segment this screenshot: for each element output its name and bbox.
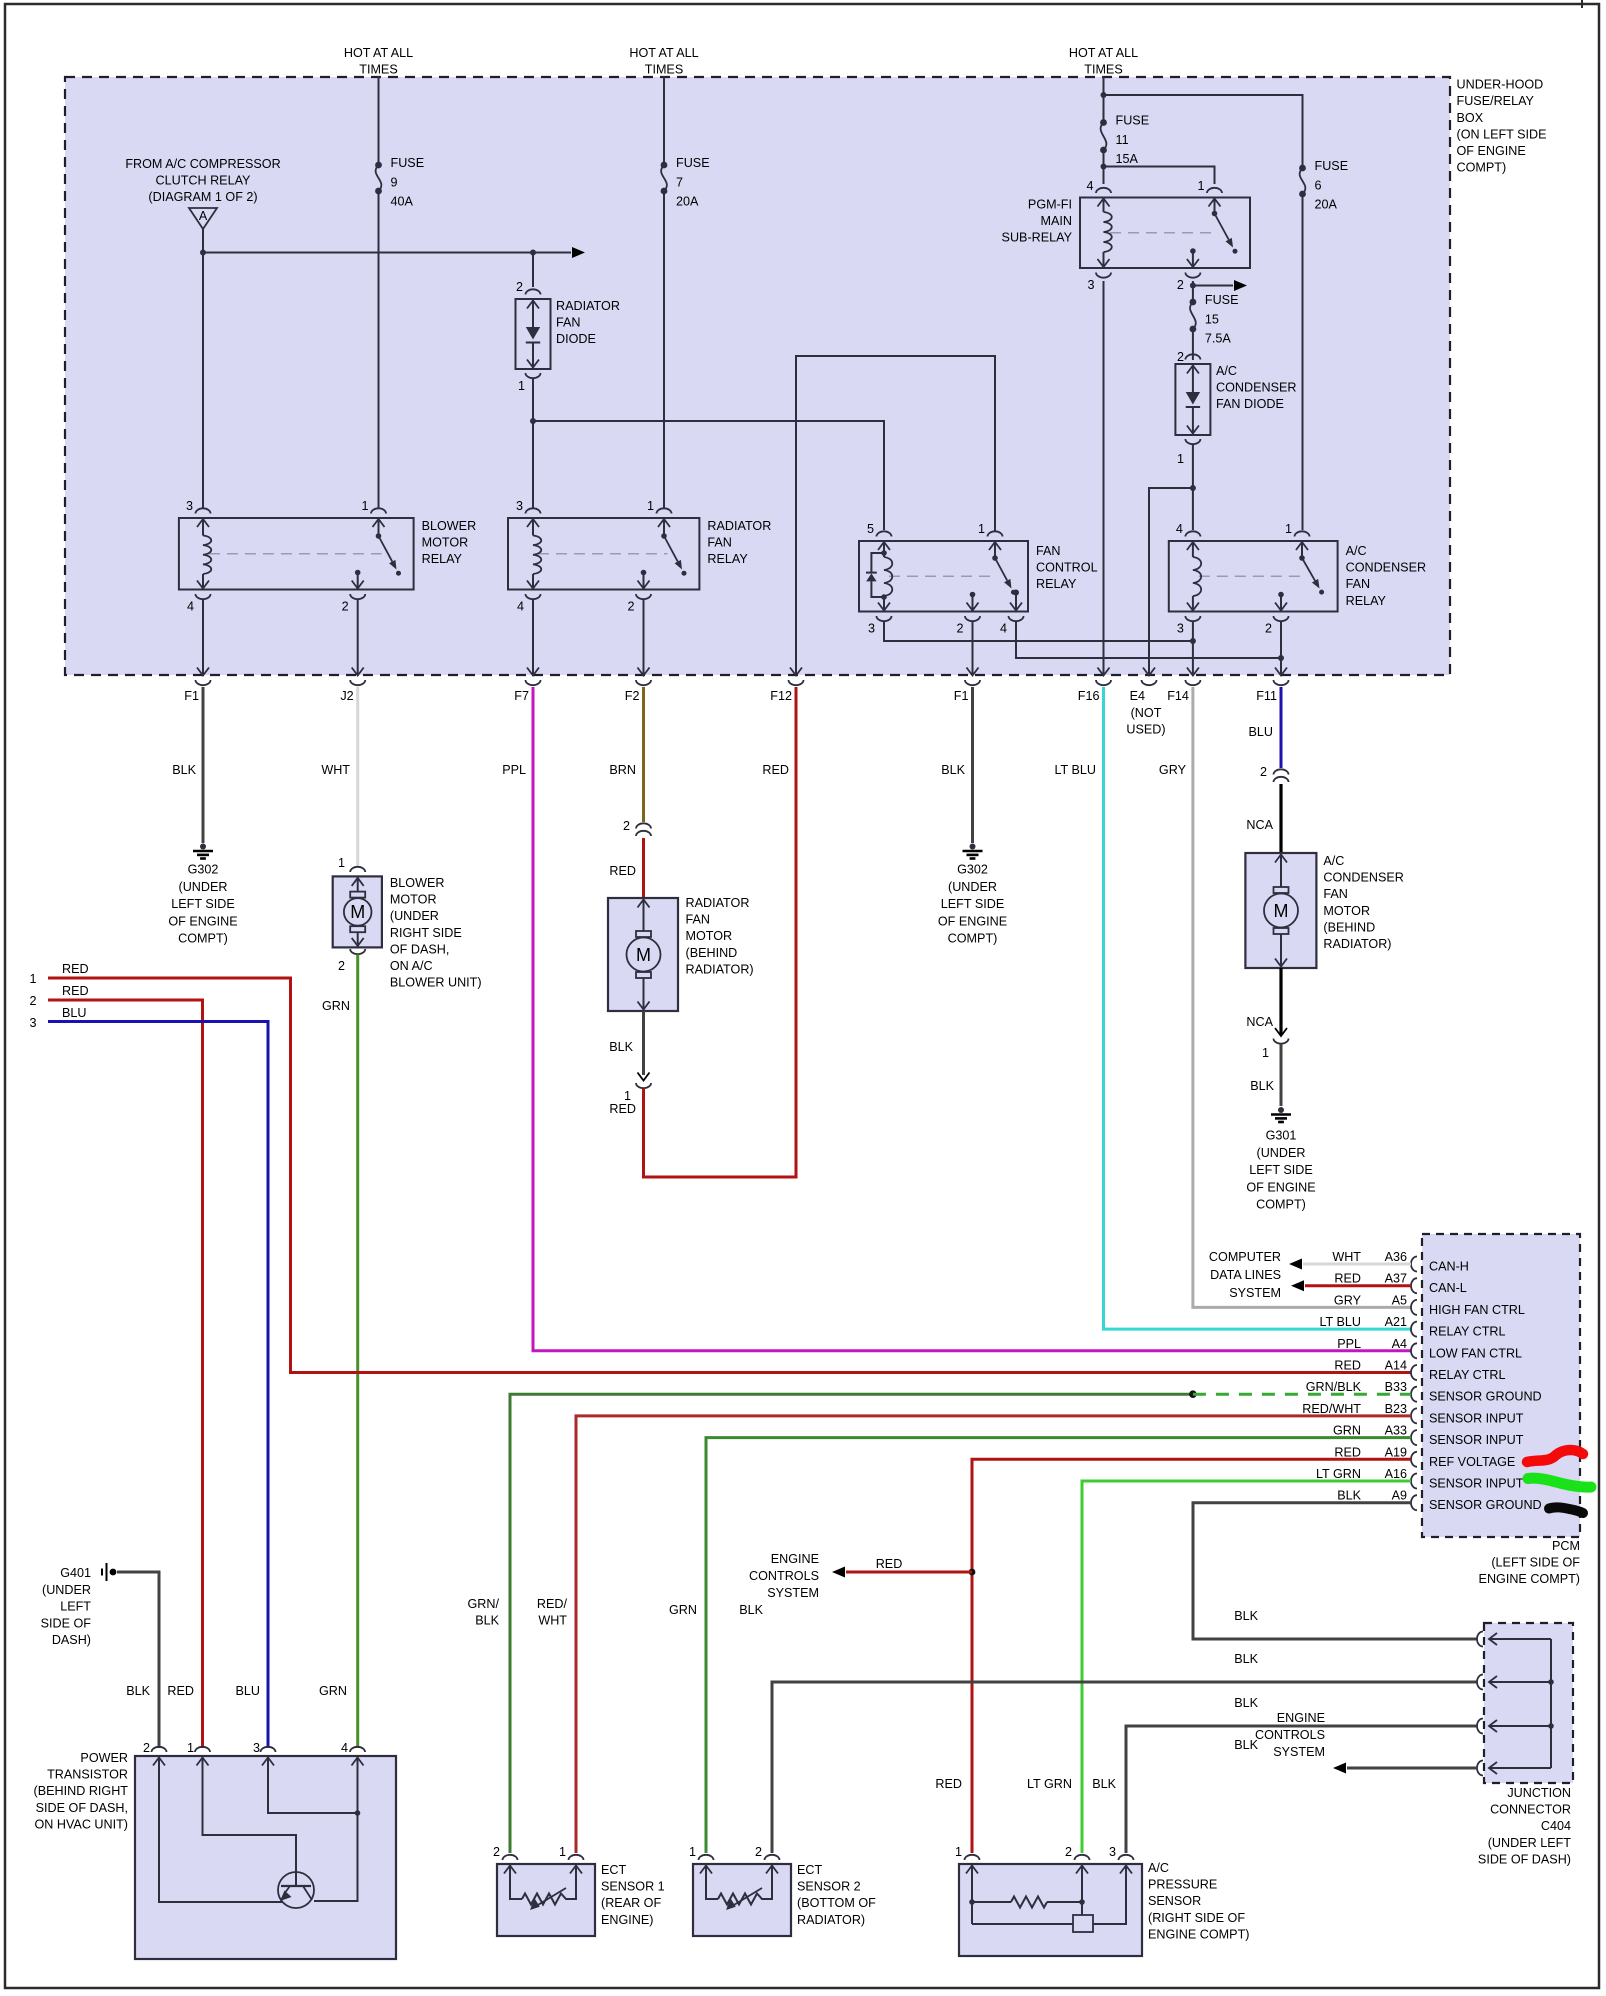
wire GRN sensor input A33 bbox=[706, 1438, 1411, 1853]
inline connector radiator fan motor pin 1 bbox=[638, 1073, 650, 1081]
wire F16 LT BLU to PCM A21 bbox=[1104, 687, 1412, 1329]
relay BLOWER MOTOR RELAY bbox=[179, 518, 414, 590]
svg-text:SYSTEM: SYSTEM bbox=[767, 1586, 819, 1600]
svg-text:RADIATOR): RADIATOR) bbox=[797, 1913, 865, 1927]
svg-text:F7: F7 bbox=[514, 689, 529, 703]
svg-text:1: 1 bbox=[361, 499, 368, 513]
power transistor pin 4 connector bbox=[350, 1747, 365, 1752]
wire G401 BLK to power transistor pin 2 bbox=[117, 1572, 159, 1748]
sub-relay coil pins 4-3 bbox=[1098, 199, 1110, 207]
wire NCA to A/C condenser fan motor bbox=[1279, 784, 1282, 853]
relay RADIATOR FAN RELAY bbox=[508, 518, 699, 590]
svg-text:FUSE: FUSE bbox=[391, 156, 425, 170]
svg-text:A4: A4 bbox=[1392, 1337, 1407, 1351]
svg-text:OF ENGINE: OF ENGINE bbox=[1246, 1180, 1315, 1194]
svg-text:PGM-FI: PGM-FI bbox=[1028, 198, 1072, 212]
fuse 9 40A bbox=[375, 162, 382, 169]
svg-text:A/C: A/C bbox=[1323, 854, 1344, 868]
svg-text:CONTROL: CONTROL bbox=[1036, 561, 1098, 575]
fan control relay coil pins 5-3 bbox=[878, 542, 890, 550]
wire fuse 6 to A/C condenser fan relay pin 1 bbox=[1302, 194, 1304, 530]
blower motor pin 2 connector bbox=[350, 949, 365, 954]
svg-text:LT GRN: LT GRN bbox=[1027, 1777, 1072, 1791]
wire fan control relay pin 2 to F1 bbox=[972, 622, 974, 675]
svg-text:OF DASH,: OF DASH, bbox=[390, 942, 449, 956]
wire fuse 11 to sub-relay pin 4 bbox=[1103, 150, 1105, 184]
inline connector A/C condenser fan motor pin 1 bbox=[1275, 1028, 1287, 1036]
svg-text:2: 2 bbox=[623, 819, 630, 833]
sub-relay pin 4 connector bbox=[1096, 188, 1111, 193]
wire BLK to ground G301 bbox=[1280, 1044, 1283, 1106]
svg-text:LEFT: LEFT bbox=[60, 1600, 91, 1614]
blower relay switch pins 1-2 bbox=[378, 518, 380, 536]
wire radiator fan motor BLK down bbox=[642, 1011, 645, 1075]
svg-text:40A: 40A bbox=[391, 195, 414, 209]
svg-text:4: 4 bbox=[517, 600, 524, 614]
wire A/C relay pin 3 to F14 bbox=[1192, 622, 1194, 675]
svg-text:MOTOR: MOTOR bbox=[1323, 904, 1370, 918]
svg-text:SYSTEM: SYSTEM bbox=[1229, 1286, 1281, 1300]
svg-text:3: 3 bbox=[1087, 278, 1094, 292]
svg-text:1: 1 bbox=[187, 1741, 194, 1755]
svg-text:FAN: FAN bbox=[1036, 544, 1061, 558]
svg-text:RED: RED bbox=[1334, 1359, 1361, 1373]
transistor POWER TRANSISTOR box bbox=[135, 1756, 396, 1959]
power transistor pin 1 connector bbox=[195, 1747, 210, 1752]
svg-text:A36: A36 bbox=[1385, 1250, 1407, 1264]
relay A/C CONDENSER FAN RELAY bbox=[1169, 541, 1338, 612]
svg-text:(UNDER: (UNDER bbox=[390, 909, 439, 923]
svg-text:RED/WHT: RED/WHT bbox=[1302, 1402, 1361, 1416]
svg-text:1: 1 bbox=[1262, 1046, 1269, 1060]
power transistor internal pin 4 lead bbox=[352, 1758, 364, 1766]
A/C pressure sensor pin 1 connector bbox=[965, 1855, 980, 1860]
PCM pin A16 SENSOR INPUT bbox=[1411, 1474, 1417, 1489]
svg-text:F2: F2 bbox=[625, 689, 640, 703]
svg-text:LOW FAN CTRL: LOW FAN CTRL bbox=[1429, 1346, 1522, 1360]
wire F2 BRN to inline connector bbox=[642, 687, 645, 822]
junction connector row 2 bbox=[1477, 1675, 1483, 1690]
svg-text:BLK: BLK bbox=[1234, 1609, 1258, 1623]
sub-relay switch pins 1-2 bbox=[1214, 198, 1216, 214]
svg-text:A/C: A/C bbox=[1346, 544, 1367, 558]
svg-text:BLOWER: BLOWER bbox=[390, 876, 445, 890]
wire blower relay pin 2 to J2 bbox=[357, 600, 359, 675]
wire RED CAN-L with arrow bbox=[1291, 1280, 1304, 1291]
A/C condenser fan relay coil pins 4-3 bbox=[1187, 542, 1199, 550]
svg-text:BLK: BLK bbox=[475, 1614, 499, 1628]
svg-text:4: 4 bbox=[341, 1741, 348, 1755]
svg-text:BLK: BLK bbox=[126, 1684, 150, 1698]
svg-text:CONTROLS: CONTROLS bbox=[1255, 1728, 1325, 1742]
svg-text:RELAY: RELAY bbox=[707, 552, 748, 566]
svg-text:RELAY: RELAY bbox=[422, 552, 463, 566]
ECT sensor 2 pin 1 connector bbox=[699, 1855, 714, 1860]
svg-text:(LEFT SIDE OF: (LEFT SIDE OF bbox=[1491, 1556, 1580, 1570]
PCM pin A37 CAN-L bbox=[1411, 1278, 1417, 1293]
ECT sensor 2 pin 2 connector bbox=[765, 1855, 780, 1860]
svg-text:(UNDER: (UNDER bbox=[42, 1583, 91, 1597]
svg-text:4: 4 bbox=[187, 600, 194, 614]
blower motor pin 1 connector bbox=[350, 867, 365, 872]
blower relay pin 2 connector bbox=[350, 594, 365, 599]
svg-text:FAN: FAN bbox=[686, 913, 711, 927]
svg-text:A/C: A/C bbox=[1216, 364, 1237, 378]
svg-text:A5: A5 bbox=[1392, 1293, 1407, 1307]
inline connector A/C condenser fan motor pin 2 bbox=[1274, 769, 1289, 774]
svg-text:1: 1 bbox=[689, 1845, 696, 1859]
svg-text:2: 2 bbox=[493, 1845, 500, 1859]
svg-text:(RIGHT SIDE OF: (RIGHT SIDE OF bbox=[1148, 1911, 1245, 1925]
wire A/C pressure pin 3 BLK to junction connector bbox=[1126, 1726, 1477, 1853]
wire RED/WHT sensor input B23 bbox=[576, 1416, 1411, 1853]
svg-text:GRN/BLK: GRN/BLK bbox=[1306, 1380, 1362, 1394]
svg-text:RED: RED bbox=[167, 1684, 194, 1698]
svg-text:FAN: FAN bbox=[1323, 887, 1348, 901]
svg-text:COMPT): COMPT) bbox=[1457, 161, 1507, 175]
svg-text:FUSE: FUSE bbox=[1116, 114, 1150, 128]
svg-text:1: 1 bbox=[978, 522, 985, 536]
svg-text:A37: A37 bbox=[1385, 1272, 1407, 1286]
page corner tick bbox=[1581, 0, 1583, 8]
svg-text:1: 1 bbox=[1285, 522, 1292, 536]
svg-text:FUSE: FUSE bbox=[676, 156, 710, 170]
svg-text:USED): USED) bbox=[1126, 723, 1165, 737]
connector F1 (blower relay) bbox=[197, 668, 209, 676]
svg-text:NCA: NCA bbox=[1246, 818, 1273, 832]
svg-text:BLK: BLK bbox=[609, 1040, 633, 1054]
svg-text:5: 5 bbox=[867, 522, 874, 536]
svg-text:BLK: BLK bbox=[1234, 1696, 1258, 1710]
svg-text:TIMES: TIMES bbox=[645, 63, 683, 77]
PCM pin A36 CAN-H bbox=[1411, 1257, 1417, 1272]
svg-text:ENGINE: ENGINE bbox=[771, 1552, 819, 1566]
svg-text:9: 9 bbox=[391, 175, 398, 189]
svg-text:TRANSISTOR: TRANSISTOR bbox=[47, 1768, 128, 1782]
fan control relay switch pins 1-4 bbox=[994, 541, 996, 558]
wire branch to E4 bbox=[1149, 488, 1193, 674]
svg-text:(BEHIND: (BEHIND bbox=[1323, 920, 1375, 934]
junction node A horizontal branch bbox=[200, 250, 206, 256]
wire fuse 9 to blower relay pin 1 bbox=[378, 191, 380, 508]
wire fan control relay pin 1 feed from F12 column bbox=[796, 356, 995, 675]
ECT sensor 1 pin 1 connector bbox=[569, 1855, 584, 1860]
svg-text:ENGINE COMPT): ENGINE COMPT) bbox=[1479, 1572, 1580, 1586]
svg-text:NCA: NCA bbox=[1246, 1015, 1273, 1029]
wire RED arrow to engine controls system bbox=[846, 1571, 972, 1574]
svg-text:GRY: GRY bbox=[1159, 763, 1187, 777]
svg-text:BLU: BLU bbox=[1249, 725, 1274, 739]
svg-text:BLK: BLK bbox=[1234, 1652, 1258, 1666]
svg-text:F11: F11 bbox=[1256, 689, 1277, 703]
fuse 6 20A bbox=[1299, 165, 1306, 172]
wire F11 BLU down bbox=[1280, 687, 1283, 768]
svg-text:MOTOR: MOTOR bbox=[390, 893, 437, 907]
svg-text:BLU: BLU bbox=[236, 1684, 261, 1698]
svg-text:1: 1 bbox=[624, 1089, 631, 1103]
fan control relay pin 4 connector bbox=[1009, 616, 1024, 621]
svg-text:RELAY CTRL: RELAY CTRL bbox=[1429, 1325, 1506, 1339]
connector F2 bbox=[638, 668, 650, 676]
svg-text:ENGINE: ENGINE bbox=[1277, 1711, 1325, 1725]
connector J2 bbox=[352, 668, 364, 676]
fan control relay pin 5 connector bbox=[877, 531, 892, 536]
svg-text:FAN DIODE: FAN DIODE bbox=[1216, 397, 1284, 411]
wire branch to sub-relay pin 1 bbox=[1104, 167, 1215, 185]
junction branch to radiator fan diode bbox=[530, 250, 536, 256]
svg-text:BLK: BLK bbox=[1337, 1489, 1361, 1503]
svg-text:RED: RED bbox=[1334, 1445, 1361, 1459]
svg-text:POWER: POWER bbox=[80, 1751, 128, 1765]
wire row 3 BLU to power transistor pin 3 bbox=[48, 1022, 268, 1749]
radiator fan relay pin 4 connector bbox=[526, 594, 541, 599]
svg-text:MOTOR: MOTOR bbox=[422, 536, 469, 550]
svg-text:BLK: BLK bbox=[1250, 1079, 1274, 1093]
wire row 1 RED to PCM A14 bbox=[48, 978, 1411, 1373]
wire blower motor pin 2 GRN to power transistor pin 4 bbox=[356, 955, 359, 1749]
connector F16 bbox=[1098, 668, 1110, 676]
wire F7 PPL to PCM A4 bbox=[533, 687, 1411, 1351]
A/C condenser fan diode pin 2 connector bbox=[1185, 354, 1200, 359]
svg-text:7: 7 bbox=[676, 175, 683, 189]
svg-text:SENSOR 1: SENSOR 1 bbox=[601, 1880, 665, 1894]
svg-text:ON A/C: ON A/C bbox=[390, 959, 433, 973]
A/C pressure sensor pin 2 connector bbox=[1075, 1855, 1090, 1860]
svg-text:G301: G301 bbox=[1266, 1129, 1297, 1143]
svg-text:RELAY: RELAY bbox=[1036, 577, 1077, 591]
power transistor internal pin 3 lead bbox=[262, 1758, 274, 1766]
wire fan control relay pin 4 to A/C relay pin 2 column bbox=[1016, 622, 1281, 659]
svg-text:WHT: WHT bbox=[321, 763, 350, 777]
scribble black marker bbox=[1549, 1507, 1583, 1513]
wire fan control relay pin 3 to F14 column bbox=[884, 622, 1193, 642]
svg-text:A21: A21 bbox=[1385, 1315, 1407, 1329]
wire hot feed to fuse 7 bbox=[663, 76, 665, 165]
inline connector radiator fan motor pin 2 bbox=[636, 823, 651, 828]
svg-text:CONDENSER: CONDENSER bbox=[1323, 871, 1403, 885]
svg-text:F1: F1 bbox=[184, 689, 199, 703]
A/C pressure sensor pin 3 connector bbox=[1119, 1855, 1134, 1860]
radiator fan relay coil pins 3-4 bbox=[527, 519, 539, 527]
svg-text:1: 1 bbox=[559, 1845, 566, 1859]
svg-text:RED: RED bbox=[1334, 1272, 1361, 1286]
svg-text:3: 3 bbox=[868, 622, 875, 636]
PCM pin A5 HIGH FAN CTRL bbox=[1411, 1300, 1417, 1315]
wire hot feed to fuse 9 bbox=[378, 76, 380, 165]
ground G302 bbox=[200, 844, 206, 850]
svg-text:RED/: RED/ bbox=[537, 1597, 568, 1611]
svg-text:SENSOR INPUT: SENSOR INPUT bbox=[1429, 1411, 1524, 1425]
wire F1 BLK to ground G302 (fan control) bbox=[971, 687, 974, 843]
fuse 7 20A bbox=[661, 162, 668, 169]
svg-text:ECT: ECT bbox=[601, 1863, 626, 1877]
wire node A branch with arrow bbox=[203, 252, 571, 254]
svg-text:A33: A33 bbox=[1385, 1424, 1407, 1438]
svg-text:(NOT: (NOT bbox=[1131, 706, 1162, 720]
svg-text:TIMES: TIMES bbox=[359, 63, 397, 77]
junction fan control pin 3 / A/C relay pin 3 bbox=[1190, 638, 1196, 644]
svg-text:A9: A9 bbox=[1392, 1489, 1407, 1503]
svg-text:F14: F14 bbox=[1167, 689, 1189, 703]
connector F12 bbox=[790, 668, 802, 676]
svg-text:GRN: GRN bbox=[1333, 1424, 1361, 1438]
connector F14 bbox=[1187, 668, 1199, 676]
svg-text:7.5A: 7.5A bbox=[1205, 332, 1232, 346]
svg-text:BLK: BLK bbox=[172, 763, 196, 777]
svg-text:RADIATOR): RADIATOR) bbox=[1323, 937, 1391, 951]
svg-text:11: 11 bbox=[1116, 133, 1129, 147]
svg-text:GRN: GRN bbox=[322, 999, 350, 1013]
svg-text:2: 2 bbox=[1065, 1845, 1072, 1859]
power transistor internal pin 1 lead bbox=[197, 1758, 209, 1766]
svg-text:RED: RED bbox=[762, 763, 789, 777]
svg-text:GRN/: GRN/ bbox=[468, 1597, 500, 1611]
svg-text:RED: RED bbox=[62, 962, 89, 976]
svg-text:BLK: BLK bbox=[739, 1603, 763, 1617]
A/C condenser fan relay switch pins 1-2 bbox=[1301, 541, 1303, 558]
svg-text:BOX: BOX bbox=[1457, 111, 1484, 125]
svg-text:3: 3 bbox=[253, 1741, 260, 1755]
wire F1 BLK to ground G302 bbox=[202, 687, 205, 843]
svg-text:2: 2 bbox=[29, 994, 36, 1008]
svg-text:HOT AT ALL: HOT AT ALL bbox=[344, 46, 413, 60]
svg-text:(BEHIND: (BEHIND bbox=[686, 946, 738, 960]
blower relay pin 3 connector bbox=[196, 508, 211, 513]
svg-text:3: 3 bbox=[1109, 1845, 1116, 1859]
svg-text:2: 2 bbox=[956, 622, 963, 636]
svg-text:4: 4 bbox=[1000, 622, 1007, 636]
svg-text:LEFT SIDE: LEFT SIDE bbox=[171, 897, 234, 911]
fan control relay pin 1 connector bbox=[988, 531, 1003, 536]
sub-relay pin 1 connector bbox=[1207, 188, 1222, 193]
connector F11 bbox=[1275, 668, 1287, 676]
svg-text:A19: A19 bbox=[1385, 1445, 1407, 1459]
radiator fan diode pin 2 connector bbox=[526, 289, 541, 294]
wire branch down to radiator fan diode pin 2 bbox=[532, 253, 534, 288]
svg-text:HOT AT ALL: HOT AT ALL bbox=[1069, 46, 1138, 60]
svg-text:BLOWER: BLOWER bbox=[422, 519, 477, 533]
svg-text:GRN: GRN bbox=[319, 1684, 347, 1698]
svg-text:(DIAGRAM 1 OF 2): (DIAGRAM 1 OF 2) bbox=[148, 190, 257, 204]
svg-text:2: 2 bbox=[1177, 350, 1184, 364]
junction RED to engine controls system bbox=[969, 1569, 976, 1576]
svg-text:G401: G401 bbox=[60, 1566, 91, 1580]
svg-text:BLK: BLK bbox=[1092, 1777, 1116, 1791]
junction connector row 1 bbox=[1477, 1632, 1483, 1647]
junction hot feed / fuse 6 branch bbox=[1101, 92, 1107, 98]
svg-text:CONDENSER: CONDENSER bbox=[1346, 561, 1426, 575]
wire LT GRN sensor input A16 bbox=[1082, 1481, 1411, 1853]
svg-text:G302: G302 bbox=[188, 863, 219, 877]
svg-text:2: 2 bbox=[143, 1741, 150, 1755]
wire RED ref voltage A19 bbox=[972, 1459, 1411, 1853]
ECT sensor 2 thermistor bbox=[700, 1866, 712, 1874]
ECT sensor 1 pin 2 connector bbox=[503, 1855, 518, 1860]
svg-text:RED: RED bbox=[62, 984, 89, 998]
svg-text:2: 2 bbox=[627, 600, 634, 614]
svg-text:BLU: BLU bbox=[62, 1006, 87, 1020]
PCM pin A9 SENSOR GROUND bbox=[1411, 1495, 1417, 1510]
svg-text:2: 2 bbox=[342, 600, 349, 614]
svg-text:FUSE/RELAY: FUSE/RELAY bbox=[1457, 94, 1535, 108]
wire sub-relay pin 3 to F16 bbox=[1103, 281, 1105, 674]
sensor ECT SENSOR 2 box bbox=[693, 1864, 791, 1936]
svg-text:15A: 15A bbox=[1116, 152, 1139, 166]
junction connector row 3 bbox=[1477, 1719, 1483, 1734]
junction connector internal bus bbox=[1550, 1639, 1552, 1768]
A/C condenser fan relay pin 2 connector bbox=[1274, 616, 1289, 621]
connector E4 (not used) bbox=[1143, 668, 1155, 676]
A/C condenser fan relay pin 3 connector bbox=[1185, 616, 1200, 621]
svg-text:CONDENSER: CONDENSER bbox=[1216, 381, 1296, 395]
svg-text:ENGINE): ENGINE) bbox=[601, 1913, 653, 1927]
svg-text:BLOWER UNIT): BLOWER UNIT) bbox=[390, 976, 482, 990]
transistor Q1 symbol bbox=[278, 1872, 314, 1908]
svg-text:RIGHT SIDE: RIGHT SIDE bbox=[390, 926, 462, 940]
svg-text:UNDER-HOOD: UNDER-HOOD bbox=[1457, 78, 1544, 92]
sensor ECT SENSOR 1 box bbox=[497, 1864, 595, 1936]
svg-text:A: A bbox=[199, 209, 208, 223]
wire node A down to blower relay pin 3 bbox=[202, 229, 204, 508]
svg-text:E4: E4 bbox=[1130, 689, 1145, 703]
wire ECT sensor 2 BLK to junction connector bbox=[772, 1682, 1477, 1853]
svg-text:RADIATOR: RADIATOR bbox=[556, 299, 620, 313]
connector JUNCTION CONNECTOR C404 box bbox=[1484, 1623, 1573, 1783]
svg-text:SENSOR INPUT: SENSOR INPUT bbox=[1429, 1477, 1524, 1491]
svg-text:4: 4 bbox=[1176, 522, 1183, 536]
PCM pin A33 SENSOR INPUT bbox=[1411, 1430, 1417, 1445]
PCM pin A19 REF VOLTAGE bbox=[1411, 1452, 1417, 1467]
svg-text:RELAY CTRL: RELAY CTRL bbox=[1429, 1368, 1506, 1382]
wire row 2 RED to power transistor pin 1 bbox=[48, 1000, 203, 1748]
svg-text:M: M bbox=[636, 945, 651, 965]
svg-text:J2: J2 bbox=[340, 689, 353, 703]
wire branch to fan control relay pin 5 bbox=[533, 421, 884, 530]
svg-text:20A: 20A bbox=[1315, 198, 1338, 212]
PCM pin B23 SENSOR INPUT bbox=[1411, 1408, 1417, 1423]
connector F1 (fan control relay) bbox=[967, 668, 979, 676]
svg-text:PPL: PPL bbox=[502, 763, 526, 777]
svg-text:LT BLU: LT BLU bbox=[1319, 1315, 1361, 1329]
svg-text:SYSTEM: SYSTEM bbox=[1273, 1745, 1325, 1759]
svg-text:A14: A14 bbox=[1385, 1359, 1407, 1373]
PCM pin A4 LOW FAN CTRL bbox=[1411, 1343, 1417, 1358]
svg-text:FUSE: FUSE bbox=[1315, 159, 1349, 173]
fuse 11 15A bbox=[1100, 119, 1107, 126]
sub-relay pin 3 connector bbox=[1096, 273, 1111, 278]
wire BLK sensor ground A9 to PCM bbox=[1193, 1503, 1477, 1639]
motor BLOWER MOTOR bbox=[333, 876, 382, 947]
svg-text:1: 1 bbox=[1177, 452, 1184, 466]
ground G302 (fan control relay) bbox=[970, 844, 976, 850]
svg-text:TIMES: TIMES bbox=[1084, 63, 1122, 77]
under-hood fuse/relay box bbox=[65, 77, 1450, 675]
svg-text:A16: A16 bbox=[1385, 1467, 1407, 1481]
svg-text:HOT AT ALL: HOT AT ALL bbox=[629, 46, 698, 60]
scribble red marker bbox=[1527, 1450, 1583, 1462]
wire diode pin 1 down to radiator fan relay pin 3 bbox=[532, 379, 534, 508]
fuse 15 7.5A bbox=[1190, 299, 1197, 306]
ECT sensor 1 thermistor bbox=[504, 1866, 516, 1874]
svg-text:COMPT): COMPT) bbox=[948, 932, 998, 946]
svg-text:MAIN: MAIN bbox=[1041, 214, 1072, 228]
svg-text:F12: F12 bbox=[770, 689, 792, 703]
svg-text:RED: RED bbox=[609, 864, 636, 878]
svg-text:FAN: FAN bbox=[1346, 577, 1371, 591]
svg-text:(BEHIND RIGHT: (BEHIND RIGHT bbox=[34, 1784, 129, 1798]
svg-text:BRN: BRN bbox=[609, 763, 636, 777]
svg-text:G302: G302 bbox=[957, 863, 988, 877]
